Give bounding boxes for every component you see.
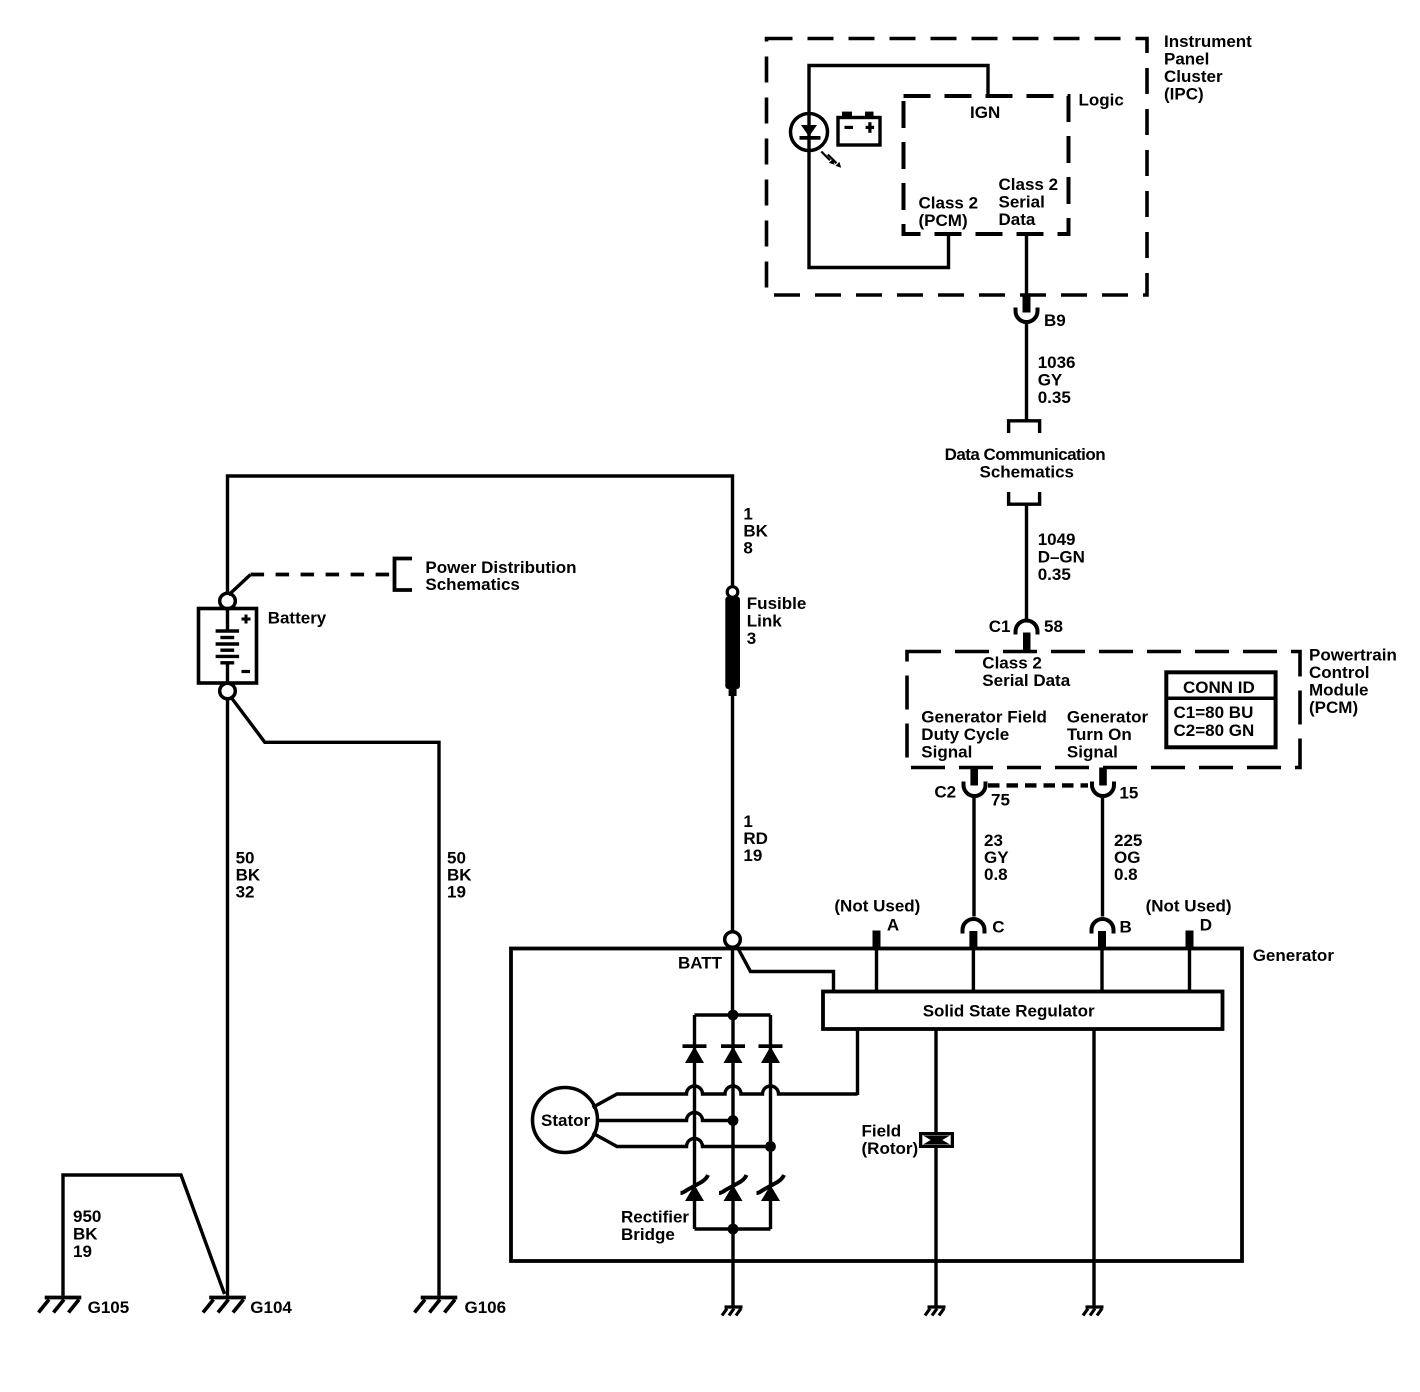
avalanche diode 2: [719, 1175, 747, 1193]
fusible link 3: [727, 587, 738, 598]
wire regulator to field: [934, 1030, 937, 1134]
rectifier columns: [693, 1015, 696, 1046]
connector C1 58: [1016, 621, 1038, 635]
svg-text:BK: BK: [73, 1225, 98, 1244]
svg-text:19: 19: [447, 882, 466, 901]
svg-text:0.8: 0.8: [984, 865, 1008, 884]
indicator lamp LED: [791, 114, 828, 151]
wire regulator B- to ground: [1092, 1030, 1095, 1307]
svg-text:IGN: IGN: [970, 103, 1000, 122]
battery: [220, 593, 236, 609]
svg-text:3: 3: [747, 629, 756, 648]
svg-text:75: 75: [991, 791, 1010, 810]
BATT node: [725, 932, 741, 948]
wire B9 to data comm: [1025, 323, 1028, 420]
svg-text:C1: C1: [989, 617, 1011, 636]
ground (rectifier): [722, 1307, 743, 1316]
svg-text:B: B: [1120, 918, 1132, 937]
svg-text:G106: G106: [465, 1298, 507, 1317]
svg-text:(PCM): (PCM): [1309, 698, 1358, 717]
svg-text:Data: Data: [999, 210, 1036, 229]
rectifier bottom bar: [695, 1227, 771, 1230]
diode 3: [759, 1044, 783, 1048]
connector C2 75: [970, 768, 978, 786]
battery plus: [242, 615, 251, 624]
svg-text:G104: G104: [250, 1298, 292, 1317]
wires terminals to regulator: [875, 949, 878, 992]
svg-text:A: A: [887, 915, 899, 934]
main feed wire top: [228, 476, 733, 594]
svg-text:Fusible: Fusible: [747, 594, 807, 613]
svg-text:G105: G105: [88, 1298, 130, 1317]
svg-text:Control: Control: [1309, 663, 1369, 682]
Logic dashed box: [904, 96, 1069, 234]
svg-text:Data Communication: Data Communication: [945, 445, 1106, 464]
generator box: [511, 949, 1242, 1262]
svg-text:0.8: 0.8: [1114, 865, 1138, 884]
wire lamp to Class2 PCM: [809, 149, 949, 268]
svg-text:Bridge: Bridge: [621, 1225, 675, 1244]
ground (regulator): [1083, 1307, 1104, 1316]
svg-text:B9: B9: [1044, 311, 1066, 330]
wire battery to G106: [231, 697, 440, 1296]
terminal D: [1186, 931, 1194, 949]
svg-text:C2: C2: [934, 783, 956, 802]
svg-text:Class 2: Class 2: [999, 175, 1059, 194]
svg-text:(Rotor): (Rotor): [862, 1139, 919, 1158]
terminal A: [873, 931, 881, 949]
svg-text:Link: Link: [747, 611, 782, 630]
svg-text:(Not Used): (Not Used): [1146, 897, 1232, 916]
data communication schematics bracket box: [1009, 421, 1040, 433]
svg-text:Serial: Serial: [999, 193, 1045, 212]
CONN ID table: [1166, 672, 1275, 747]
svg-text:15: 15: [1119, 784, 1138, 803]
svg-text:Module: Module: [1309, 681, 1369, 700]
svg-text:8: 8: [743, 539, 752, 558]
wire 15 to B: [1101, 797, 1104, 917]
svg-text:Cluster: Cluster: [1164, 67, 1223, 86]
stator phase middle: [598, 1113, 734, 1121]
solid state regulator: [823, 992, 1223, 1030]
PCM dashed box: [907, 652, 1300, 768]
svg-text:Panel: Panel: [1164, 50, 1209, 69]
svg-text:Powertrain: Powertrain: [1309, 646, 1397, 665]
svg-text:Solid State Regulator: Solid State Regulator: [923, 1002, 1095, 1021]
svg-text:Serial Data: Serial Data: [982, 671, 1070, 690]
wire battery to G104: [226, 699, 229, 1296]
svg-text:Duty Cycle: Duty Cycle: [921, 725, 1009, 744]
avalanche diode 3: [757, 1175, 785, 1193]
svg-text:Rectifier: Rectifier: [621, 1208, 689, 1227]
wire serial data to B9: [1025, 234, 1028, 298]
wire rectifier to ground: [731, 1229, 734, 1306]
connector body dashed line: [988, 783, 1088, 787]
svg-text:Generator Field: Generator Field: [921, 708, 1047, 727]
wire field to ground: [934, 1148, 937, 1306]
wire fusible link to BATT node: [731, 696, 734, 932]
svg-text:(IPC): (IPC): [1164, 85, 1204, 104]
field rotor symbol: [919, 1132, 954, 1148]
svg-text:1049: 1049: [1038, 530, 1076, 549]
svg-text:Class 2: Class 2: [982, 654, 1042, 673]
svg-text:Schematics: Schematics: [980, 463, 1075, 482]
wire G105 branch: [63, 1175, 225, 1296]
svg-text:Signal: Signal: [1067, 743, 1118, 762]
svg-text:1036: 1036: [1038, 353, 1076, 372]
svg-text:C2=80 GN: C2=80 GN: [1174, 721, 1255, 740]
battery tell-tale icon: [838, 118, 880, 146]
svg-text:D–GN: D–GN: [1038, 548, 1085, 567]
svg-text:0.35: 0.35: [1038, 565, 1071, 584]
svg-text:Turn On: Turn On: [1067, 725, 1132, 744]
wire IGN to lamp: [809, 66, 988, 116]
svg-text:950: 950: [73, 1207, 101, 1226]
stator phase top: [593, 1086, 858, 1108]
ground (field): [925, 1307, 946, 1316]
svg-text:Field: Field: [862, 1122, 902, 1141]
svg-text:19: 19: [743, 846, 762, 865]
connector B: [1092, 919, 1114, 934]
svg-text:C: C: [992, 918, 1004, 937]
svg-text:Generator: Generator: [1067, 708, 1149, 727]
diode 1: [683, 1044, 707, 1048]
svg-text:(PCM): (PCM): [919, 211, 968, 230]
svg-text:Schematics: Schematics: [425, 575, 520, 594]
svg-text:Class 2: Class 2: [919, 194, 979, 213]
wire data comm to C1: [1025, 504, 1028, 619]
svg-text:C1=80 BU: C1=80 BU: [1174, 703, 1254, 722]
ground G106: [415, 1298, 458, 1313]
wire C2 to C: [972, 797, 975, 917]
svg-text:BATT: BATT: [678, 954, 723, 973]
svg-text:CONN ID: CONN ID: [1183, 678, 1255, 697]
connector B9: [1023, 296, 1031, 313]
svg-text:GY: GY: [1038, 371, 1063, 390]
power distribution dashed wire: [229, 575, 251, 596]
svg-text:19: 19: [73, 1242, 92, 1261]
svg-text:Generator: Generator: [1253, 946, 1335, 965]
avalanche diode 1: [681, 1175, 709, 1193]
battery cells: [216, 609, 240, 684]
wire BATT to regulator: [737, 946, 834, 992]
power distribution bracket: [395, 559, 413, 591]
wire BATT node down to rectifier: [731, 947, 734, 1015]
ground G105: [39, 1298, 82, 1313]
diode 2: [721, 1044, 745, 1048]
svg-text:D: D: [1200, 915, 1212, 934]
connector 15: [1099, 768, 1107, 786]
battery minus: [242, 670, 251, 673]
IPC dashed box: [767, 39, 1148, 296]
ground G104: [203, 1298, 246, 1313]
stator: [533, 1088, 598, 1153]
svg-text:Stator: Stator: [541, 1111, 591, 1130]
rectifier top bar: [695, 1013, 771, 1016]
svg-text:(Not Used): (Not Used): [834, 897, 920, 916]
svg-text:Logic: Logic: [1079, 91, 1124, 110]
connector C: [963, 919, 985, 934]
lamp arrows: [821, 152, 836, 164]
svg-text:Signal: Signal: [921, 743, 972, 762]
svg-text:0.35: 0.35: [1038, 388, 1071, 407]
svg-text:Battery: Battery: [268, 609, 327, 628]
wire regulator to phase sense: [856, 1030, 859, 1096]
stator phase bottom: [593, 1133, 771, 1147]
svg-text:58: 58: [1044, 617, 1063, 636]
svg-text:32: 32: [236, 882, 255, 901]
svg-text:Instrument: Instrument: [1164, 32, 1252, 51]
